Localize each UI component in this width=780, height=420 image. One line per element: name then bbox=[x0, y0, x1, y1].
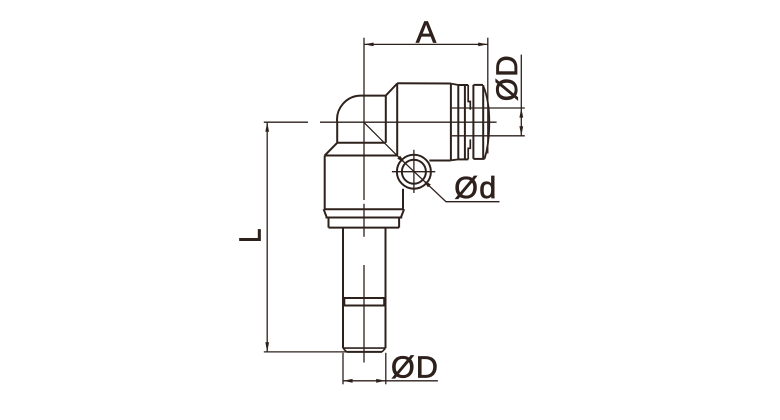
port circle inner bbox=[402, 160, 426, 184]
flange top line bbox=[325, 208, 403, 210]
dimension L line bbox=[266, 122, 268, 352]
vertical centerline dash 3 bbox=[363, 265, 365, 363]
collet jog upper bbox=[468, 85, 470, 110]
flange bottom line bbox=[329, 227, 400, 229]
dimension OD right arrow up bbox=[519, 108, 523, 118]
stem groove left inset bbox=[344, 298, 346, 306]
flange tier B right edge bbox=[398, 218, 400, 228]
dimension OD bottom extension line left bbox=[342, 353, 344, 385]
dimension A arrow right bbox=[478, 43, 488, 47]
vertical body top edge bbox=[325, 155, 398, 157]
vertical body left edge bbox=[324, 156, 326, 210]
collet ring top edge bbox=[458, 84, 468, 86]
dimension L arrow top bbox=[265, 122, 269, 132]
vertical body right edge bbox=[402, 189, 404, 209]
port circle crosshair horizontal bbox=[392, 171, 435, 173]
port circle crosshair vertical bbox=[413, 150, 415, 193]
dimension A arrow left bbox=[364, 43, 374, 47]
svg-text:ØD: ØD bbox=[391, 350, 439, 384]
flange tier B left edge bbox=[328, 218, 330, 228]
stem bottom-left chamfer bbox=[343, 348, 347, 352]
corner bottom edge bbox=[337, 142, 386, 144]
dimension L extension line top (collinear with horizontal centerline) bbox=[264, 121, 308, 123]
vertical body left shoulder chamfer bbox=[325, 143, 338, 156]
collet ring line 2 bbox=[464, 85, 466, 159]
svg-text:ØD: ØD bbox=[491, 54, 524, 101]
svg-text:Ød: Ød bbox=[454, 171, 497, 205]
svg-text:A: A bbox=[416, 15, 437, 49]
horizontal body left edge bbox=[385, 96, 387, 143]
flange middle line bbox=[326, 217, 403, 219]
release button top edge bbox=[473, 84, 483, 86]
dimension OD right line bbox=[520, 55, 522, 136]
dimension OD bottom extension line right bbox=[385, 353, 387, 385]
stem end face bbox=[347, 351, 383, 353]
stem left edge bbox=[342, 228, 344, 349]
stem groove top line bbox=[343, 297, 386, 299]
dimension OD right extension line top (tube bore top) bbox=[452, 107, 525, 109]
release button right face arc bbox=[483, 85, 489, 158]
dimension OD right extension line bottom (tube bore bottom) bbox=[452, 135, 525, 137]
collet ring line 1 bbox=[457, 85, 459, 159]
release button left edge bbox=[472, 85, 474, 159]
stem chamfer line bbox=[343, 347, 386, 349]
svg-text:L: L bbox=[233, 228, 267, 242]
dimension A extension line left (vertical centerline upper part) bbox=[363, 38, 365, 200]
elbow corner arc bbox=[337, 96, 386, 123]
horizontal body top edge bbox=[397, 82, 451, 84]
dimension OD bottom arrow left bbox=[343, 379, 353, 383]
dimension OD bottom arrow right bbox=[376, 379, 386, 383]
Od leader arrow lower-right on circle bbox=[423, 180, 431, 188]
horizontal body bottom edge bbox=[429, 160, 451, 162]
flange tier A right edge bbox=[401, 209, 404, 217]
release button right line bbox=[482, 85, 484, 159]
dimension L arrow bottom bbox=[265, 342, 269, 352]
horizontal centerline bbox=[320, 121, 497, 123]
collet ring top chamfer bbox=[451, 84, 458, 85]
dimension A line bbox=[364, 43, 488, 45]
stem groove right inset bbox=[383, 298, 385, 306]
port circle outer bbox=[397, 155, 431, 189]
Od leader arrow upper-left on circle bbox=[397, 156, 405, 164]
release button bottom edge bbox=[473, 158, 484, 160]
vertical centerline dash 2 bbox=[363, 204, 365, 237]
horizontal body top-left chamfer bbox=[386, 84, 397, 96]
miter diagonal with Od leader bbox=[364, 122, 500, 201]
collet jog lower bbox=[468, 139, 470, 159]
dimension OD right arrow down bbox=[519, 126, 523, 136]
horizontal body end face bbox=[450, 83, 452, 160]
dimension OD bottom line with leader bbox=[343, 380, 438, 382]
horizontal body chamfer-cylinder boundary bbox=[396, 83, 398, 155]
dimension L extension line bottom bbox=[264, 351, 347, 353]
dimension A extension line right bbox=[487, 38, 489, 154]
corner left edge bbox=[336, 122, 338, 143]
collet ring bottom chamfer bbox=[451, 158, 458, 161]
stem right edge bbox=[385, 228, 387, 349]
stem bottom-right chamfer bbox=[382, 348, 386, 352]
flange tier A left edge bbox=[324, 209, 327, 217]
collet ring bottom edge bbox=[458, 158, 468, 160]
stem groove bottom line bbox=[343, 305, 386, 307]
